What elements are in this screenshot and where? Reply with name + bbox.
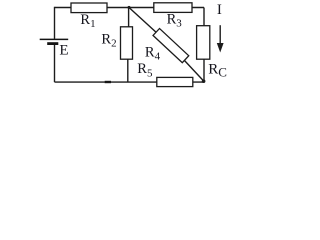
resistor R4 (rotated box on diagonal) <box>153 28 189 62</box>
svg-text:R4: R4 <box>145 45 161 63</box>
junction thick spot on bottom wire <box>105 81 111 83</box>
svg-text:I: I <box>217 2 222 18</box>
wire left lower (battery down to bottom corner) <box>54 45 56 83</box>
wire R2 bottom (R2 down to bottom wire) <box>127 59 129 83</box>
node A (top junction) <box>128 6 131 9</box>
wire right lower (RC down to bottom node) <box>203 59 205 83</box>
current arrow I (downward) <box>217 25 224 52</box>
resistor R5 (box) <box>157 77 193 86</box>
svg-text:R1: R1 <box>80 12 95 30</box>
resistor R3 (box) <box>154 3 192 13</box>
wire bottom (left corner to right node) <box>55 81 205 83</box>
svg-text:E: E <box>59 43 68 59</box>
wire left upper (corner down to battery) <box>54 7 56 39</box>
wire top (from left corner to right corner) <box>55 7 205 9</box>
resistor R1 (box) <box>71 3 107 13</box>
svg-text:R2: R2 <box>101 32 116 50</box>
svg-text:RC: RC <box>208 61 227 79</box>
svg-text:R5: R5 <box>137 61 153 80</box>
wire R2 top (node A down to R2) <box>128 8 130 28</box>
wire diagonal (node A to bottom-right node, through R4) <box>129 8 204 82</box>
resistor RC (box) <box>197 26 210 60</box>
resistor R2 (box) <box>121 27 133 59</box>
wire right upper (top corner down to RC) <box>203 8 205 27</box>
node B (bottom-right junction) <box>202 79 206 83</box>
battery E (long thin plate + short thick plate) <box>40 39 68 43</box>
svg-text:R3: R3 <box>167 11 183 29</box>
